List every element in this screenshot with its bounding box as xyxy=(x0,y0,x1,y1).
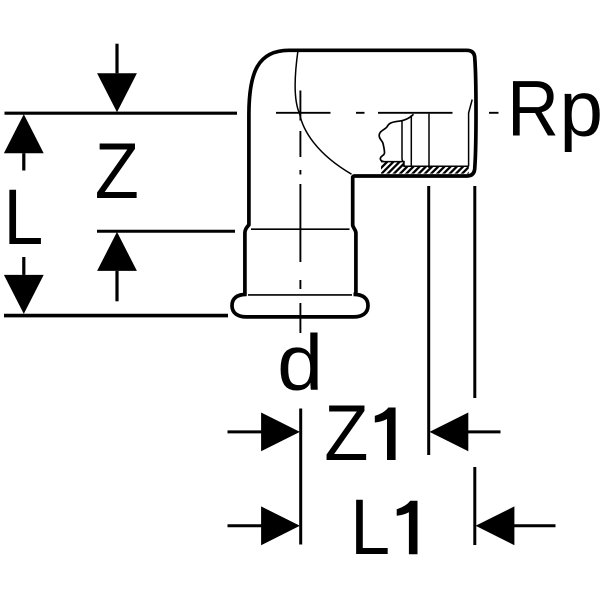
svg-text:L: L xyxy=(350,483,390,571)
svg-text:Z: Z xyxy=(324,389,368,478)
svg-text:d: d xyxy=(277,319,323,407)
svg-text:Z: Z xyxy=(95,127,139,216)
svg-text:L: L xyxy=(4,173,44,261)
svg-text:R: R xyxy=(507,64,559,152)
svg-text:p: p xyxy=(560,64,600,152)
